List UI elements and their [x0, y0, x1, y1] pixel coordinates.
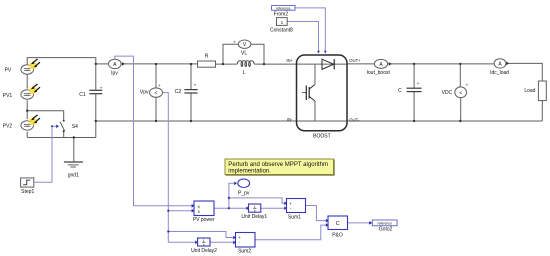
svg-text:L: L	[243, 70, 246, 76]
svg-text:Ipv: Ipv	[111, 70, 118, 76]
svg-text:+: +	[158, 83, 161, 88]
svg-text:R: R	[205, 53, 209, 59]
svg-text:Constant8: Constant8	[270, 28, 293, 34]
svg-text:+: +	[100, 85, 103, 90]
svg-text:<: <	[459, 90, 462, 96]
svg-text:IN+: IN+	[286, 58, 293, 63]
svg-text:+: +	[466, 83, 469, 88]
svg-text:Unit Delay1: Unit Delay1	[241, 214, 267, 220]
svg-text:Sum1: Sum1	[288, 215, 301, 221]
svg-text:OUT-: OUT-	[349, 117, 360, 122]
svg-text:gnd1: gnd1	[68, 173, 79, 179]
svg-text:implementation.: implementation.	[228, 168, 271, 174]
svg-text:Sum2: Sum2	[238, 249, 251, 255]
svg-text:Idc_load: Idc_load	[490, 70, 509, 76]
svg-text:From2: From2	[274, 12, 289, 18]
svg-text:VL: VL	[241, 50, 247, 56]
svg-text:+: +	[417, 81, 420, 86]
svg-text:S4: S4	[72, 124, 78, 130]
svg-text:OUT+: OUT+	[349, 58, 361, 63]
svg-text:BOOST: BOOST	[313, 134, 331, 140]
svg-text:VDC: VDC	[442, 90, 453, 96]
svg-text:C2: C2	[175, 89, 182, 95]
svg-text:C: C	[398, 88, 402, 94]
svg-text:Load: Load	[524, 88, 535, 94]
svg-text:z: z	[254, 209, 256, 213]
svg-text:PV1: PV1	[3, 93, 13, 99]
svg-text:PV power: PV power	[193, 217, 215, 223]
svg-text:Goto2: Goto2	[379, 226, 393, 232]
svg-text:1: 1	[281, 20, 284, 25]
svg-text:IN-: IN-	[287, 117, 293, 122]
svg-text:PV2: PV2	[3, 123, 13, 129]
svg-text:C: C	[336, 221, 340, 227]
svg-text:reference: reference	[276, 6, 290, 10]
svg-text:z: z	[203, 243, 205, 247]
svg-text:P_pv: P_pv	[238, 190, 250, 196]
svg-text:Step1: Step1	[21, 189, 34, 195]
svg-text:+: +	[233, 40, 236, 45]
svg-text:C1: C1	[79, 92, 86, 98]
svg-text:Iout_boost: Iout_boost	[367, 70, 391, 76]
svg-text:P&O: P&O	[332, 232, 343, 238]
svg-text:PV: PV	[5, 67, 12, 73]
svg-text:reference: reference	[378, 221, 392, 225]
svg-text:<: <	[155, 91, 158, 97]
svg-text:Unit Delay2: Unit Delay2	[191, 248, 217, 254]
svg-text:Vpv: Vpv	[140, 90, 149, 96]
svg-text:+: +	[194, 83, 197, 88]
svg-text:Perturb and observe MPPT algor: Perturb and observe MPPT algorithm	[228, 162, 328, 168]
